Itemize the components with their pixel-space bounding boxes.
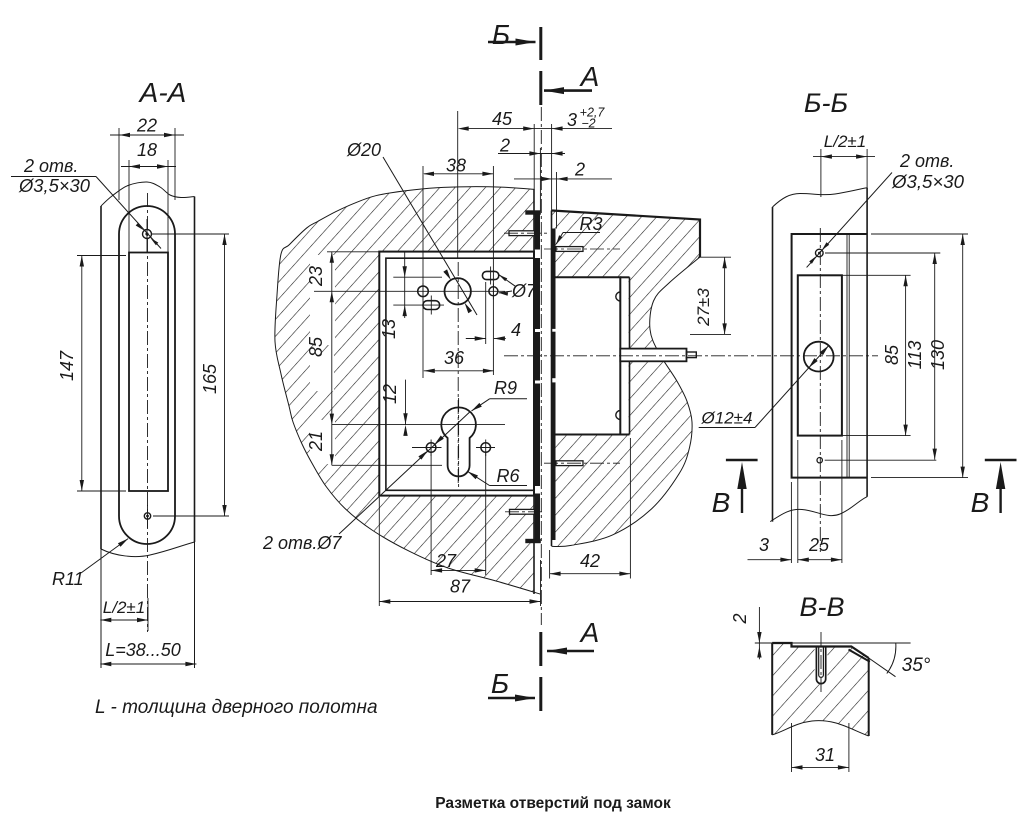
svg-text:2 отв.: 2 отв. — [23, 156, 78, 176]
svg-text:Разметка отверстий под замок: Разметка отверстий под замок — [435, 795, 671, 812]
svg-text:130: 130 — [928, 340, 948, 370]
svg-text:85: 85 — [882, 344, 902, 365]
svg-text:2 отв.Ø7: 2 отв.Ø7 — [262, 533, 342, 553]
svg-text:3: 3 — [759, 535, 769, 555]
svg-text:R6: R6 — [496, 466, 520, 486]
svg-text:23: 23 — [306, 266, 326, 287]
svg-text:21: 21 — [306, 431, 326, 452]
svg-text:27: 27 — [435, 551, 457, 571]
svg-text:L/2±1: L/2±1 — [824, 132, 866, 151]
svg-text:42: 42 — [580, 551, 600, 571]
svg-text:36: 36 — [444, 348, 465, 368]
svg-text:4: 4 — [511, 320, 521, 340]
svg-text:А-А: А-А — [138, 77, 187, 108]
svg-text:85: 85 — [306, 336, 326, 357]
svg-text:27±3: 27±3 — [694, 288, 713, 327]
svg-text:113: 113 — [905, 341, 925, 370]
svg-text:Б: Б — [491, 668, 509, 699]
svg-text:L/2±1: L/2±1 — [103, 598, 145, 617]
svg-text:31: 31 — [815, 745, 835, 765]
svg-text:Ø3,5×30: Ø3,5×30 — [891, 172, 964, 192]
svg-text:Ø3,5×30: Ø3,5×30 — [18, 176, 90, 196]
svg-text:22: 22 — [136, 116, 157, 136]
svg-text:Ø12±4: Ø12±4 — [701, 409, 753, 428]
svg-text:45: 45 — [492, 109, 513, 129]
svg-text:38: 38 — [446, 156, 466, 176]
svg-text:165: 165 — [200, 363, 220, 394]
svg-text:R11: R11 — [52, 569, 84, 589]
svg-text:12: 12 — [380, 384, 400, 404]
svg-text:Ø7: Ø7 — [511, 281, 537, 301]
svg-text:R9: R9 — [494, 378, 517, 398]
svg-text:35°: 35° — [902, 655, 931, 676]
svg-text:Б: Б — [492, 19, 510, 50]
svg-text:18: 18 — [137, 140, 157, 160]
svg-text:2 отв.: 2 отв. — [899, 151, 954, 171]
svg-text:В-В: В-В — [799, 592, 844, 622]
svg-text:Ø20: Ø20 — [346, 140, 381, 160]
svg-text:25: 25 — [808, 535, 830, 555]
svg-text:А: А — [579, 61, 600, 92]
svg-text:L - толщина дверного полотна: L - толщина дверного полотна — [95, 697, 378, 718]
svg-text:147: 147 — [57, 350, 77, 381]
svg-text:2: 2 — [730, 613, 750, 624]
svg-text:−2: −2 — [581, 117, 595, 131]
svg-text:87: 87 — [450, 577, 471, 597]
svg-text:L=38...50: L=38...50 — [105, 640, 181, 660]
svg-text:Б-Б: Б-Б — [804, 88, 848, 118]
svg-text:В: В — [712, 487, 731, 518]
svg-text:3: 3 — [567, 110, 577, 130]
svg-text:2: 2 — [574, 160, 585, 180]
svg-text:R3: R3 — [579, 214, 602, 234]
svg-text:13: 13 — [379, 319, 399, 339]
svg-text:2: 2 — [499, 136, 510, 156]
svg-text:А: А — [579, 617, 600, 648]
svg-text:В: В — [971, 487, 990, 518]
